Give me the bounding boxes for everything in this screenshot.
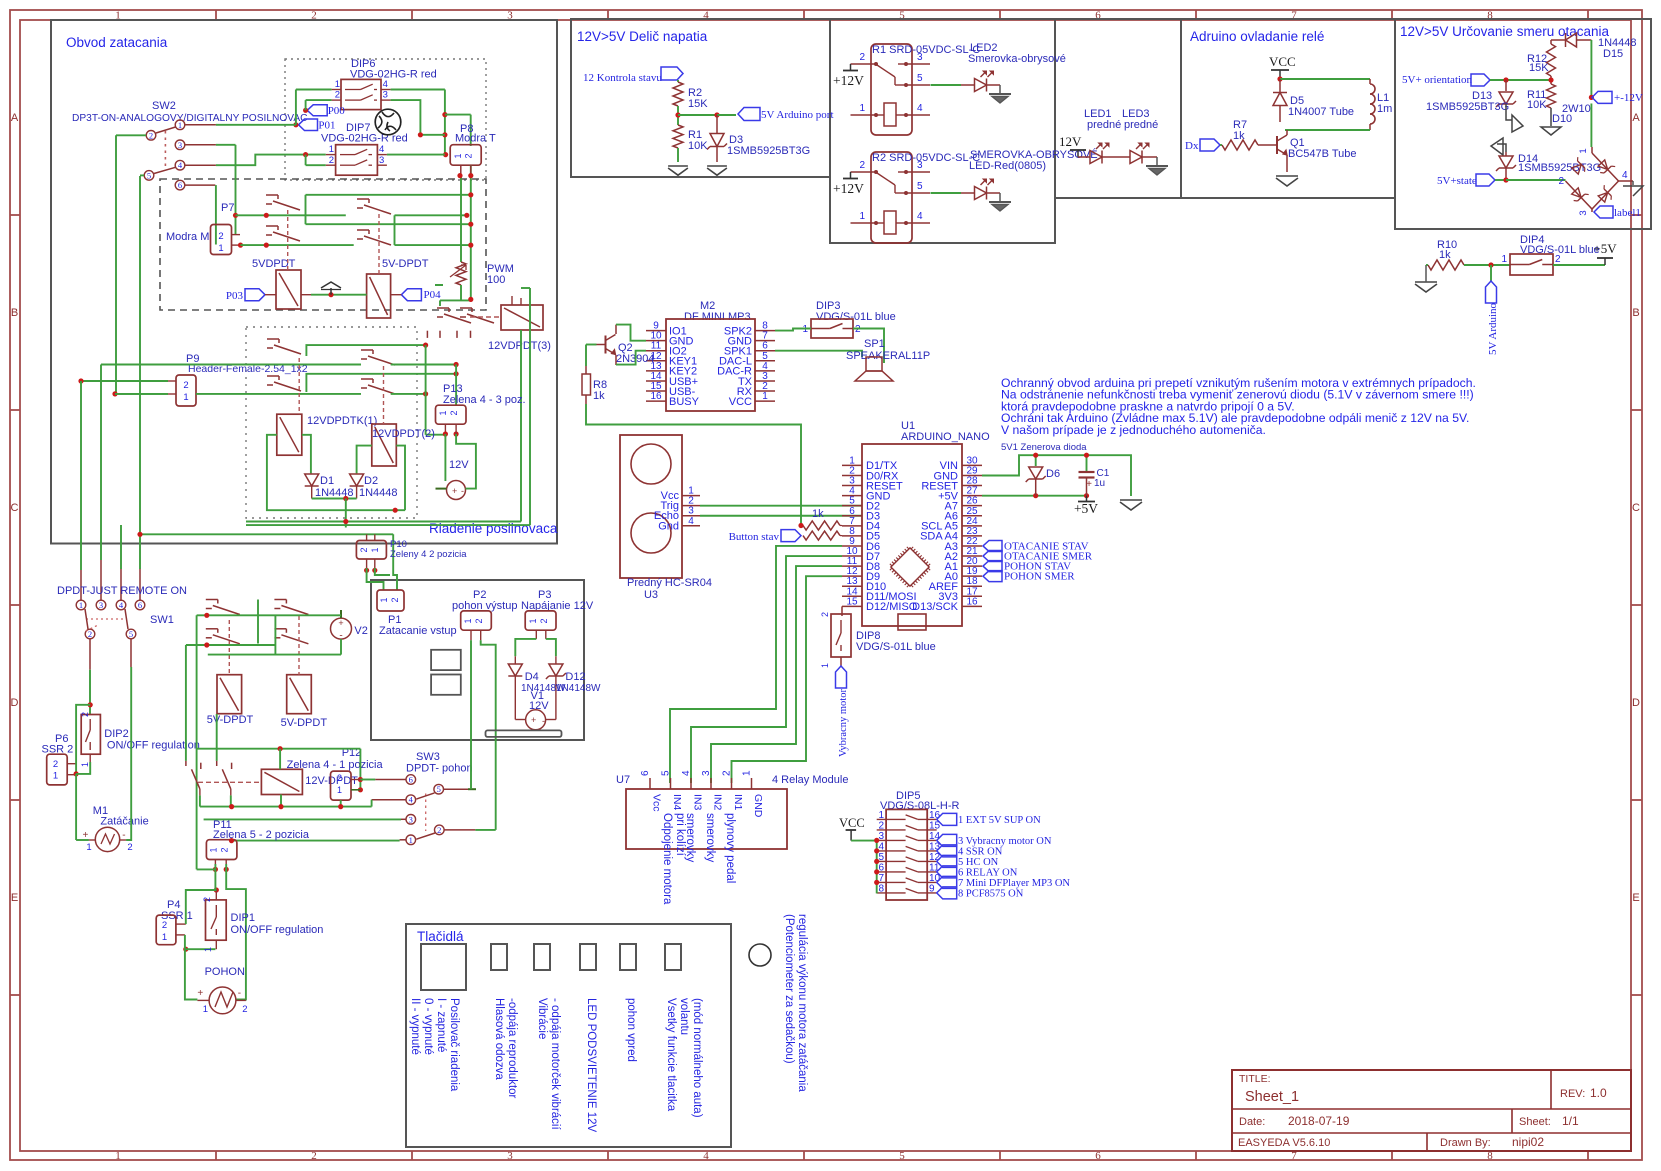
svg-text:-odpája reproduktor: -odpája reproduktor (506, 998, 518, 1099)
svg-text:1: 1 (79, 600, 83, 610)
svg-text:+12V: +12V (833, 181, 864, 196)
svg-text:3 Vybracny motor ON: 3 Vybracny motor ON (958, 836, 1052, 847)
svg-text:1: 1 (80, 762, 90, 767)
svg-text:1: 1 (115, 1150, 121, 1162)
svg-text:Zelena 4 - 3 poz.: Zelena 4 - 3 poz. (443, 394, 526, 406)
svg-text:1: 1 (218, 243, 223, 254)
svg-text:2: 2 (859, 52, 865, 63)
svg-text:1: 1 (162, 932, 167, 943)
svg-text:P04: P04 (424, 289, 442, 301)
svg-text:1: 1 (1501, 254, 1507, 265)
svg-text:plynovy pedal: plynovy pedal (724, 813, 736, 883)
svg-text:5V-DPDT: 5V-DPDT (207, 714, 254, 726)
svg-text:12V: 12V (449, 459, 469, 471)
svg-text:(Potenciometer za sedačkou): (Potenciometer za sedačkou) (783, 914, 795, 1064)
svg-text:5: 5 (878, 852, 884, 863)
svg-text:5 HC ON: 5 HC ON (958, 857, 999, 868)
svg-text:DPDT- pohon: DPDT- pohon (406, 763, 473, 775)
svg-text:1SMB5925BT3G: 1SMB5925BT3G (1518, 162, 1601, 174)
svg-text:DIP1: DIP1 (231, 912, 255, 924)
svg-text:2: 2 (183, 380, 188, 391)
svg-text:E: E (1632, 892, 1639, 904)
svg-text:R2 SRD-05VDC-SL-C: R2 SRD-05VDC-SL-C (872, 152, 980, 164)
svg-text:EASYEDA V5.6.10: EASYEDA V5.6.10 (1238, 1137, 1330, 1149)
svg-text:V našom prípade je z jednoduch: V našom prípade je z jednoduchého autome… (1001, 423, 1266, 437)
svg-text:1: 1 (370, 547, 380, 552)
svg-text:3: 3 (878, 831, 884, 842)
svg-text:(mód normálneho auta): (mód normálneho auta) (691, 998, 703, 1118)
svg-text:14: 14 (929, 831, 941, 842)
svg-text:+: + (83, 830, 89, 841)
svg-text:VCC: VCC (1269, 54, 1296, 69)
svg-text:2: 2 (859, 160, 865, 171)
svg-text:1: 1 (53, 771, 58, 782)
svg-text:label1: label1 (1614, 207, 1641, 219)
svg-text:Sheet_1: Sheet_1 (1245, 1089, 1299, 1105)
svg-text:IN4: IN4 (671, 794, 683, 811)
svg-text:5V-DPDT: 5V-DPDT (382, 258, 429, 270)
svg-text:1m: 1m (1377, 103, 1392, 115)
svg-text:VCC: VCC (729, 396, 752, 408)
svg-text:Vybracny motor: Vybracny motor (838, 689, 849, 757)
svg-text:DPDT-JUST REMOTE ON: DPDT-JUST REMOTE ON (57, 585, 187, 597)
svg-text:1: 1 (820, 663, 830, 668)
svg-text:1: 1 (802, 324, 808, 335)
svg-text:2: 2 (329, 155, 334, 166)
svg-text:I - zapnuté: I - zapnuté (435, 998, 447, 1052)
svg-text:regulácia výkonu motora zatáča: regulácia výkonu motora zatáčania (796, 914, 808, 1092)
svg-text:5V+ orientation: 5V+ orientation (1402, 74, 1473, 86)
svg-text:2: 2 (335, 90, 340, 101)
svg-text:1N4148W: 1N4148W (556, 683, 601, 694)
svg-text:15K: 15K (688, 98, 708, 110)
svg-text:3: 3 (917, 160, 923, 171)
svg-text:2: 2 (162, 920, 167, 931)
svg-text:Posilovač riadenia: Posilovač riadenia (448, 998, 460, 1092)
svg-text:POHON: POHON (205, 966, 245, 978)
svg-text:10K: 10K (1527, 99, 1547, 111)
svg-text:3: 3 (99, 600, 103, 610)
svg-text:1N4448: 1N4448 (359, 487, 398, 499)
svg-text:15K: 15K (1529, 62, 1549, 74)
svg-text:D12/MISO: D12/MISO (866, 601, 918, 613)
svg-text:4: 4 (681, 770, 692, 776)
svg-text:1: 1 (379, 597, 389, 602)
svg-text:D12: D12 (565, 671, 585, 683)
svg-text:P03: P03 (226, 290, 244, 302)
svg-text:6: 6 (138, 600, 142, 610)
svg-text:5VDPDT: 5VDPDT (252, 258, 296, 270)
svg-text:6: 6 (178, 180, 182, 190)
svg-text:1: 1 (742, 770, 753, 776)
svg-text:- odpája motorček vibrácií: - odpája motorček vibrácií (549, 998, 561, 1130)
svg-text:2: 2 (359, 547, 369, 552)
svg-text:4: 4 (383, 79, 388, 90)
svg-text:Zatáčanie: Zatáčanie (100, 816, 148, 828)
svg-text:LED PODSVIETENIE 12V: LED PODSVIETENIE 12V (585, 998, 597, 1133)
svg-text:5V Arduino port: 5V Arduino port (761, 109, 834, 121)
svg-text:1: 1 (178, 120, 182, 130)
svg-text:nipi02: nipi02 (1512, 1135, 1544, 1149)
svg-text:1k: 1k (1439, 249, 1451, 261)
svg-text:VCC: VCC (839, 816, 865, 830)
svg-text:5: 5 (917, 181, 923, 192)
svg-text:BUSY: BUSY (669, 396, 700, 408)
svg-text:5V1 Zenerova dioda: 5V1 Zenerova dioda (1001, 442, 1087, 453)
svg-text:1: 1 (528, 618, 538, 623)
svg-text:BC547B Tube: BC547B Tube (1288, 148, 1357, 160)
svg-text:SPEAKERAL11P: SPEAKERAL11P (846, 350, 930, 362)
svg-text:C: C (11, 502, 19, 514)
svg-text:6: 6 (878, 862, 884, 873)
svg-text:1: 1 (453, 153, 463, 158)
svg-text:D15: D15 (1603, 48, 1623, 60)
svg-text:D10: D10 (1552, 113, 1572, 125)
svg-text:2: 2 (539, 618, 549, 623)
svg-text:1: 1 (463, 618, 473, 623)
svg-text:1: 1 (203, 947, 213, 952)
svg-text:2: 2 (80, 712, 90, 717)
svg-text:1/1: 1/1 (1562, 1114, 1579, 1128)
svg-text:DP3T-ON-ANALOGOVY/DIGITALNY PO: DP3T-ON-ANALOGOVY/DIGITALNY POSILNOVAC (72, 113, 308, 124)
svg-text:+5V: +5V (1593, 241, 1617, 256)
svg-text:6: 6 (1095, 1150, 1101, 1162)
svg-text:D4: D4 (525, 671, 539, 683)
svg-text:D1: D1 (320, 475, 334, 487)
svg-text:2: 2 (878, 820, 884, 831)
svg-text:VDG-02HG-R red: VDG-02HG-R red (321, 133, 408, 145)
svg-text:U3: U3 (644, 589, 658, 601)
svg-text:IN3: IN3 (692, 794, 704, 811)
svg-text:1: 1 (209, 847, 219, 852)
svg-text:1k: 1k (1233, 130, 1245, 142)
svg-text:4: 4 (409, 795, 414, 805)
svg-text:+-12V: +-12V (1614, 92, 1643, 104)
svg-text:3: 3 (383, 90, 388, 101)
svg-text:Obvod zatacania: Obvod zatacania (66, 35, 168, 50)
svg-text:12V>5V Určovanie smeru otacani: 12V>5V Určovanie smeru otacania (1400, 24, 1609, 39)
svg-text:C: C (1632, 502, 1640, 514)
svg-text:4: 4 (1622, 170, 1628, 181)
svg-text:3: 3 (917, 52, 923, 63)
svg-text:12VDPDTK(1): 12VDPDTK(1) (307, 415, 377, 427)
svg-text:P01: P01 (318, 120, 335, 132)
svg-text:SP1: SP1 (864, 338, 885, 350)
svg-text:Predný HC-SR04: Predný HC-SR04 (627, 577, 712, 589)
svg-text:3: 3 (379, 155, 384, 166)
svg-text:V2: V2 (354, 625, 367, 637)
svg-text:E: E (11, 892, 18, 904)
svg-text:II - vypnuté: II - vypnuté (409, 998, 421, 1055)
svg-text:1SMB5925BT3G: 1SMB5925BT3G (727, 145, 810, 157)
svg-text:2: 2 (464, 153, 474, 158)
svg-text:pohon vpred: pohon vpred (625, 998, 637, 1062)
svg-text:IN1: IN1 (732, 794, 744, 811)
svg-text:Gnd: Gnd (658, 520, 679, 532)
svg-text:1: 1 (409, 835, 413, 845)
svg-text:A: A (11, 112, 19, 124)
svg-text:Vcc: Vcc (651, 794, 663, 812)
svg-text:1k: 1k (812, 508, 824, 520)
svg-text:Hlasová odozva: Hlasová odozva (493, 998, 505, 1080)
svg-text:IN2: IN2 (712, 794, 724, 811)
svg-text:1: 1 (86, 842, 91, 853)
svg-text:volantu: volantu (678, 998, 690, 1035)
svg-text:3: 3 (701, 770, 712, 776)
svg-text:2: 2 (390, 597, 400, 602)
svg-text:+5V: +5V (1074, 501, 1098, 516)
svg-text:4: 4 (703, 1150, 709, 1162)
svg-text:2: 2 (1558, 176, 1564, 187)
svg-text:U7: U7 (616, 774, 630, 786)
svg-text:2: 2 (449, 410, 459, 415)
svg-text:12VDPDT(3): 12VDPDT(3) (488, 340, 551, 352)
svg-text:smerovky: smerovky (704, 813, 716, 862)
svg-text:16: 16 (966, 596, 978, 607)
svg-text:-: - (461, 486, 464, 496)
svg-text:SW3: SW3 (416, 751, 440, 763)
svg-text:+: + (531, 715, 536, 725)
svg-text:2: 2 (820, 612, 830, 617)
svg-text:3: 3 (507, 1150, 513, 1162)
svg-text:2: 2 (242, 1004, 247, 1015)
svg-text:12V>5V Delič napatia: 12V>5V Delič napatia (577, 29, 708, 44)
svg-text:5: 5 (147, 170, 151, 180)
svg-text:1SMB5925BT3G: 1SMB5925BT3G (1426, 101, 1509, 113)
svg-text:10: 10 (929, 873, 941, 884)
svg-text:11: 11 (929, 862, 940, 873)
svg-text:Vsetky funkcie tlacitka: Vsetky funkcie tlacitka (665, 998, 677, 1112)
svg-text:POHON SMER: POHON SMER (1004, 571, 1075, 583)
svg-text:SW2: SW2 (152, 100, 176, 112)
svg-text:4: 4 (917, 103, 923, 114)
svg-text:Button stav: Button stav (729, 531, 780, 543)
svg-text:ON/OFF regulation: ON/OFF regulation (231, 924, 324, 936)
svg-text:2: 2 (722, 770, 733, 776)
svg-text:Adruino ovladanie relé: Adruino ovladanie relé (1190, 29, 1324, 44)
svg-text:2: 2 (149, 130, 153, 140)
svg-text:5: 5 (661, 770, 672, 776)
svg-text:16: 16 (650, 391, 662, 402)
svg-text:5: 5 (129, 629, 133, 639)
svg-text:1: 1 (859, 103, 865, 114)
svg-text:2: 2 (220, 847, 230, 852)
svg-text:B: B (1632, 307, 1639, 319)
svg-text:12: 12 (929, 852, 941, 863)
svg-text:7: 7 (878, 873, 884, 884)
svg-text:predné: predné (1087, 119, 1121, 131)
svg-text:+: + (1086, 479, 1092, 490)
svg-text:Modra M: Modra M (166, 231, 209, 243)
svg-text:3: 3 (1578, 210, 1589, 215)
svg-text:DIP2: DIP2 (104, 728, 128, 740)
svg-text:2: 2 (88, 629, 92, 639)
svg-text:Vibrácie: Vibrácie (536, 998, 548, 1039)
svg-text:DF MINI MP3: DF MINI MP3 (684, 311, 751, 323)
svg-text:2: 2 (127, 842, 132, 853)
svg-text:2: 2 (337, 773, 342, 783)
svg-text:5: 5 (437, 784, 441, 794)
svg-text:16: 16 (929, 810, 941, 821)
svg-text:VDG/S-01L blue: VDG/S-01L blue (856, 641, 936, 653)
svg-text:D: D (11, 697, 19, 709)
svg-text:1: 1 (183, 392, 188, 403)
svg-text:ARDUINO_NANO: ARDUINO_NANO (901, 431, 990, 443)
svg-text:1: 1 (335, 79, 340, 90)
svg-text:5: 5 (917, 73, 923, 84)
svg-text:+: + (452, 486, 457, 496)
svg-text:SW1: SW1 (150, 614, 174, 626)
svg-text:Zeleny 4 2 pozicia: Zeleny 4 2 pozicia (390, 549, 467, 560)
svg-text:3: 3 (409, 814, 413, 824)
svg-text:-: - (542, 716, 545, 726)
svg-text:13: 13 (929, 841, 941, 852)
svg-text:Dx: Dx (1185, 140, 1199, 152)
svg-text:4: 4 (688, 516, 694, 527)
svg-text:4: 4 (379, 144, 384, 155)
svg-text:Modra T: Modra T (455, 133, 496, 145)
svg-text:1: 1 (878, 810, 884, 821)
svg-text:1.0: 1.0 (1590, 1086, 1607, 1100)
svg-text:1: 1 (1578, 148, 1589, 153)
svg-text:2: 2 (1555, 254, 1561, 265)
svg-text:Zatacanie vstup: Zatacanie vstup (379, 625, 457, 637)
svg-text:smerovky: smerovky (684, 813, 696, 862)
svg-text:3: 3 (178, 140, 182, 150)
svg-text:2: 2 (474, 618, 484, 623)
svg-text:1k: 1k (593, 390, 605, 402)
svg-text:7 Mini DFPlayer MP3 ON: 7 Mini DFPlayer MP3 ON (958, 878, 1070, 889)
svg-text:D: D (1632, 697, 1640, 709)
svg-text:1: 1 (329, 144, 334, 155)
svg-text:-: - (238, 988, 241, 999)
svg-text:8 PCF8575 ON: 8 PCF8575 ON (958, 888, 1024, 899)
svg-text:+: + (197, 988, 203, 999)
svg-text:A: A (1632, 112, 1640, 124)
svg-text:12V: 12V (1059, 134, 1082, 149)
svg-text:1: 1 (337, 785, 342, 795)
svg-text:6 RELAY ON: 6 RELAY ON (958, 867, 1018, 878)
svg-text:10K: 10K (688, 140, 708, 152)
svg-text:VDG/S-01L blue: VDG/S-01L blue (816, 311, 896, 323)
svg-text:predné: predné (1124, 119, 1158, 131)
svg-text:Tlačidlá: Tlačidlá (417, 929, 464, 944)
svg-text:100: 100 (487, 274, 505, 286)
svg-text:4 Relay Module: 4 Relay Module (772, 774, 848, 786)
svg-text:5V+state: 5V+state (1437, 175, 1477, 187)
svg-text:P00: P00 (328, 105, 346, 117)
svg-text:Odpojenie motora: Odpojenie motora (661, 813, 673, 905)
svg-text:1: 1 (859, 211, 865, 222)
svg-text:D13/SCK: D13/SCK (912, 601, 959, 613)
svg-text:5V Arduino: 5V Arduino (1487, 302, 1499, 355)
svg-text:Smerovka-obrysové: Smerovka-obrysové (968, 53, 1066, 65)
svg-text:2018-07-19: 2018-07-19 (1288, 1114, 1350, 1128)
svg-text:D2: D2 (364, 475, 378, 487)
svg-text:2: 2 (437, 825, 441, 835)
svg-text:1: 1 (438, 410, 448, 415)
svg-text:15: 15 (846, 596, 858, 607)
svg-text:9: 9 (929, 883, 935, 894)
svg-text:2: 2 (202, 897, 212, 902)
svg-text:1: 1 (762, 391, 768, 402)
svg-text:4: 4 (917, 211, 923, 222)
svg-text:Riadenie posilnovaca: Riadenie posilnovaca (429, 521, 558, 536)
svg-text:8: 8 (878, 883, 884, 894)
svg-text:2: 2 (53, 759, 58, 770)
svg-text:12VDPDT(2): 12VDPDT(2) (372, 428, 435, 440)
svg-text:Sheet:: Sheet: (1519, 1116, 1551, 1128)
svg-text:2: 2 (311, 1150, 317, 1162)
svg-text:1N4007 Tube: 1N4007 Tube (1288, 106, 1354, 118)
svg-text:GND: GND (752, 794, 764, 818)
svg-text:1u: 1u (1094, 478, 1105, 489)
svg-text:4: 4 (878, 841, 884, 852)
svg-text:2: 2 (855, 324, 861, 335)
svg-text:5: 5 (899, 1150, 905, 1162)
svg-text:B: B (11, 307, 18, 319)
svg-text:6: 6 (409, 775, 413, 785)
svg-text:Drawn By:: Drawn By: (1440, 1137, 1491, 1149)
svg-text:+12V: +12V (833, 73, 864, 88)
svg-text:D6: D6 (1046, 468, 1060, 480)
svg-text:12 Kontrola stavu: 12 Kontrola stavu (583, 72, 662, 84)
svg-text:1 EXT 5V SUP ON: 1 EXT 5V SUP ON (958, 815, 1041, 826)
svg-text:TITLE:: TITLE: (1239, 1073, 1271, 1085)
svg-text:15: 15 (929, 820, 941, 831)
svg-text:+: + (338, 618, 343, 628)
svg-text:P7: P7 (221, 202, 234, 214)
svg-text:1: 1 (203, 1004, 208, 1015)
svg-text:Date:: Date: (1239, 1116, 1265, 1128)
svg-text:LED-Red(0805): LED-Red(0805) (969, 160, 1046, 172)
svg-text:6: 6 (640, 770, 651, 776)
svg-text:REV:: REV: (1560, 1088, 1585, 1100)
svg-text:2: 2 (218, 231, 223, 242)
svg-text:5V-DPDT: 5V-DPDT (281, 717, 328, 729)
svg-text:0 - vypnuté: 0 - vypnuté (422, 998, 434, 1055)
svg-text:R1 SRD-05VDC-SL-C: R1 SRD-05VDC-SL-C (872, 44, 980, 56)
svg-text:4 SSR ON: 4 SSR ON (958, 846, 1003, 857)
